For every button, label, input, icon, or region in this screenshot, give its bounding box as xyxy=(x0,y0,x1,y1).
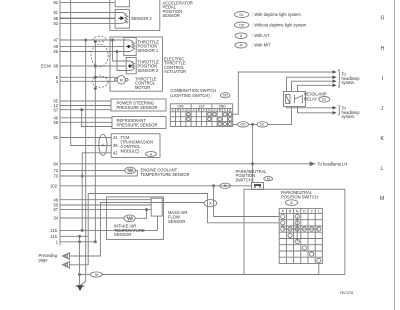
vertical 102 branch to PNP AT table row 1 xyxy=(214,186,280,217)
wire ECM 91 to APP sensor 2 xyxy=(60,12,115,14)
wire ECM 50 to MAF element xyxy=(60,204,151,206)
oval after TCM label xyxy=(146,152,157,157)
wire ECM 1 to shield drain xyxy=(60,241,95,243)
combination switch contact circles xyxy=(187,113,232,126)
throttle position sensor 1 inner box xyxy=(124,38,136,56)
svg-text:PRESSURE SENSOR: PRESSURE SENSOR xyxy=(117,105,158,110)
vertical V3 wire 47 down to ground xyxy=(81,40,86,286)
wire ECM 4 to throttle control motor xyxy=(60,80,116,82)
arrow 1 wire to PNP AT via connector A xyxy=(70,203,205,257)
svg-text:B: B xyxy=(198,108,200,112)
svg-text:M: M xyxy=(380,196,384,202)
ECM connector edge line xyxy=(59,0,61,246)
svg-text:OD: OD xyxy=(241,123,247,127)
svg-text:83: 83 xyxy=(53,21,58,26)
svg-text:SENSOR: SENSOR xyxy=(168,219,185,224)
svg-text:: Without daytime light system: : Without daytime light system xyxy=(252,23,307,28)
svg-text:47: 47 xyxy=(53,38,58,43)
svg-text:MODULE) :: MODULE) : xyxy=(121,148,142,153)
wire ECM 82 to APP sensor 1 xyxy=(60,2,115,4)
junction dot headlamp LH xyxy=(252,163,254,165)
relay bottom pin wires to headlamp system xyxy=(287,107,334,108)
svg-text:A: A xyxy=(193,108,195,112)
comb switch row1 wire to relay feed xyxy=(233,72,334,114)
wire ECM 46 to refrigerant pressure sensor xyxy=(60,117,112,119)
TP sensor interconnect vertical a xyxy=(113,40,127,61)
svg-text:A: A xyxy=(214,108,216,112)
TP sensor 1 potentiometer xyxy=(124,40,135,52)
sensor ground branch 57 to refrigerant sensor xyxy=(82,110,112,127)
wire ECM 115 MAF ground xyxy=(60,229,158,231)
preceding page arrow 2 xyxy=(62,194,279,269)
svg-text::: : xyxy=(281,200,282,205)
wire ECM 102 to PNP switch MT xyxy=(60,185,252,187)
bracket to headlamp system bottom xyxy=(338,106,340,115)
PNP MT switch box xyxy=(252,183,264,190)
wire ECM 98 to APP sensor 2 wiper xyxy=(60,17,115,19)
svg-text:A: A xyxy=(172,108,174,112)
svg-text:YEC27A: YEC27A xyxy=(340,291,354,295)
svg-text:To headlamp LH: To headlamp LH xyxy=(318,161,348,166)
svg-text:: With A/T: : With A/T xyxy=(252,33,270,38)
APP sensor 2 inner box xyxy=(115,9,129,28)
svg-text:OD: OD xyxy=(239,23,245,27)
svg-text:G: G xyxy=(381,16,385,22)
svg-text:34: 34 xyxy=(53,216,58,221)
svg-text:102: 102 xyxy=(50,183,58,188)
svg-text:ACTUATOR: ACTUATOR xyxy=(164,69,186,74)
power steering pressure sensor box xyxy=(111,99,166,111)
TCM connector oval A xyxy=(99,134,107,155)
wire ECM 83 to APP sensor 2 xyxy=(60,22,115,24)
shield dashed oval 1 xyxy=(93,37,106,42)
wire ECM 49 to TP sensor 1 wiper xyxy=(60,45,124,47)
PNP table column letters xyxy=(282,209,320,213)
wire ECM 69 to refrigerant pressure sensor xyxy=(60,121,112,123)
shield dashed oval 3 xyxy=(92,76,108,87)
svg-text:DL: DL xyxy=(322,98,326,102)
connector oval M on wire 102 xyxy=(220,183,231,188)
wire ECM 116 to ground xyxy=(60,235,88,237)
svg-text:C: C xyxy=(182,108,184,112)
svg-text:ECM: ECM xyxy=(41,64,51,69)
svg-text:69: 69 xyxy=(53,120,58,125)
svg-text:MOTOR: MOTOR xyxy=(135,85,150,90)
refrigerant pressure sensor box xyxy=(112,117,166,129)
svg-text:67: 67 xyxy=(53,207,58,212)
svg-text:: With M/T: : With M/T xyxy=(252,43,271,48)
svg-text:1: 1 xyxy=(56,239,59,244)
park/neutral position switch table xyxy=(279,209,322,264)
svg-text:C: C xyxy=(224,108,226,112)
TCM 42 wire to sensor ground xyxy=(82,153,111,231)
wire ECM 48 to MAF element xyxy=(60,199,151,201)
svg-text:J: J xyxy=(381,106,384,112)
junction dot TCM42/wire73 xyxy=(81,175,83,177)
svg-text:SENSOR 2: SENSOR 2 xyxy=(138,68,159,73)
svg-text:D: D xyxy=(229,108,231,112)
svg-text:82: 82 xyxy=(53,0,58,5)
arrowheads to headlamp system xyxy=(333,70,337,114)
svg-text:system: system xyxy=(342,80,356,85)
wire ECM 67 to MAF element xyxy=(60,209,151,211)
svg-text:M: M xyxy=(224,184,227,188)
ground drop wire xyxy=(79,236,81,284)
svg-text:PRESSURE SENSOR: PRESSURE SENSOR xyxy=(117,123,158,128)
oval after relay label xyxy=(319,97,330,103)
svg-text:A: A xyxy=(102,142,105,147)
wire ECM 34 to IAT sensor xyxy=(60,217,124,219)
wire ECM 73 ECT sensor return xyxy=(60,175,137,177)
svg-text:42: 42 xyxy=(113,150,118,155)
svg-text:D: D xyxy=(187,108,189,112)
svg-text:66: 66 xyxy=(53,49,58,54)
relay top pin wires to headlamp system xyxy=(287,77,334,91)
svg-text:R: R xyxy=(289,209,292,213)
mass air flow sensor box xyxy=(107,197,164,240)
TCM box xyxy=(111,134,160,158)
svg-text:DL: DL xyxy=(240,13,244,17)
headlamp relay box xyxy=(284,92,306,107)
svg-text:P: P xyxy=(282,209,285,213)
throttle control motor xyxy=(115,76,129,84)
svg-text:72: 72 xyxy=(53,168,58,173)
intake air temperature sensor thermistor xyxy=(124,215,135,222)
svg-text:68: 68 xyxy=(53,64,58,69)
PNP MT oval connector M xyxy=(80,264,319,278)
text layer xyxy=(39,0,361,295)
table headers xyxy=(177,105,226,109)
TP sensor 2 potentiometer xyxy=(126,61,134,71)
comb switch output wire with OD and DL connectors xyxy=(233,107,292,128)
legend oval M xyxy=(235,42,247,48)
svg-text:1: 1 xyxy=(318,209,320,213)
svg-text:115: 115 xyxy=(50,228,57,233)
svg-text:SENSOR 1: SENSOR 1 xyxy=(138,48,159,53)
svg-text:A: A xyxy=(290,201,293,205)
svg-text:OD: OD xyxy=(223,94,229,98)
oval after PNP AT label xyxy=(285,200,298,206)
grid reference letters xyxy=(380,16,385,203)
IAT to MAF ground link xyxy=(135,210,146,219)
svg-text:I: I xyxy=(382,76,383,82)
combination switch table xyxy=(170,104,232,127)
connector oval A on PNP AT wires xyxy=(204,200,217,207)
small inline ovals xyxy=(146,93,330,206)
wire ECM 68 to TP sensor 2 wiper xyxy=(60,65,126,67)
wire ECM 12 to PS pressure sensor xyxy=(60,105,111,107)
wire ECM 72 to ECT sensor xyxy=(60,169,125,171)
svg-text:page: page xyxy=(39,257,49,262)
svg-text:M: M xyxy=(95,273,98,277)
svg-text:POSITION SWITCH: POSITION SWITCH xyxy=(281,194,318,199)
junction dot 102 branch xyxy=(213,185,215,187)
svg-text:SWITCH :: SWITCH : xyxy=(236,178,254,183)
svg-text:73: 73 xyxy=(53,174,58,179)
wire ECM 65 to PS pressure sensor xyxy=(60,100,111,102)
svg-text:SENSOR 2: SENSOR 2 xyxy=(131,16,152,21)
MAF element ground vertical xyxy=(157,216,159,230)
wire ECM 92 to TCM 41 xyxy=(60,137,111,139)
PNP table internal links xyxy=(296,217,298,242)
legend oval OD xyxy=(235,22,249,28)
ECM pin numbers xyxy=(50,0,59,244)
svg-text:116: 116 xyxy=(50,234,57,239)
svg-text:2: 2 xyxy=(311,209,313,213)
electric throttle control actuator outer box xyxy=(110,37,163,91)
legend oval DL xyxy=(235,12,249,18)
PNP table contact circles xyxy=(281,214,321,262)
svg-text:H: H xyxy=(381,46,385,52)
svg-text:M: M xyxy=(120,78,123,82)
svg-text:84: 84 xyxy=(53,161,58,166)
park/neutral position switch assembly box xyxy=(244,189,345,274)
wire ECM 5 to throttle control motor xyxy=(60,76,117,78)
junction dots on shield drain xyxy=(94,40,96,243)
svg-text:system: system xyxy=(342,114,356,119)
svg-text:91: 91 xyxy=(53,10,58,15)
svg-text:SENSOR: SENSOR xyxy=(163,13,180,18)
svg-text:48: 48 xyxy=(53,197,58,202)
legend ovals xyxy=(235,12,249,49)
junction dot V3 on wire 47 xyxy=(85,39,87,41)
svg-text:M: M xyxy=(240,44,243,48)
svg-text:L: L xyxy=(381,166,384,172)
oval after lighting switch label xyxy=(221,93,231,98)
arrow to headlamp LH xyxy=(253,162,315,166)
svg-text:SENSOR: SENSOR xyxy=(114,232,131,237)
svg-text:41: 41 xyxy=(113,135,118,140)
bracket to headlamp system top xyxy=(338,70,340,87)
engine coolant temperature sensor thermistor xyxy=(125,167,137,176)
accelerator pedal position sensor outer box xyxy=(110,0,160,30)
junction dot on wire 115 xyxy=(81,229,83,231)
svg-text:TEMPERATURE SENSOR: TEMPERATURE SENSOR xyxy=(141,172,190,177)
svg-text:: With daytime light system: : With daytime light system xyxy=(252,12,301,17)
svg-text:57: 57 xyxy=(53,107,58,112)
svg-text:DL: DL xyxy=(260,123,264,127)
svg-text:C: C xyxy=(203,108,205,112)
wire ECM 84 to headlamp junction xyxy=(60,163,253,165)
vertical V1 from top to TCM 39 xyxy=(71,0,112,146)
shield drain vertical V2 to ECM pin 1 wire xyxy=(94,40,96,242)
svg-text:A: A xyxy=(240,34,243,38)
svg-text:39: 39 xyxy=(113,143,118,148)
vertical comb switch to PNP MT switch xyxy=(252,124,254,182)
svg-text:4: 4 xyxy=(56,79,59,84)
wire ECM 47 to TP sensor 1 xyxy=(60,39,124,41)
svg-text:N: N xyxy=(296,209,299,213)
frame right border xyxy=(394,0,396,310)
APP sensor 1 inner box (cut off at top) xyxy=(115,0,129,7)
svg-text:RELAY :: RELAY : xyxy=(304,96,319,101)
APP sensor 2 potentiometer xyxy=(115,13,128,24)
svg-text:K: K xyxy=(381,136,385,142)
preceding page arrow 1 xyxy=(62,203,204,260)
shield dashed oval 2 xyxy=(91,44,108,66)
svg-text:92: 92 xyxy=(53,135,58,140)
TP sensor interconnect vertical b xyxy=(117,52,126,71)
svg-text:A: A xyxy=(150,152,153,156)
svg-text:(LIGHTING SWITCH) :: (LIGHTING SWITCH) : xyxy=(170,93,212,98)
svg-text:B: B xyxy=(219,108,221,112)
ground junction dots xyxy=(78,235,80,237)
throttle position sensor 2 inner box xyxy=(126,58,136,74)
svg-text:A: A xyxy=(209,202,212,206)
MAF hot film element xyxy=(151,198,162,216)
svg-text:D: D xyxy=(208,108,210,112)
wire ECM 57 to PS pressure sensor xyxy=(60,109,111,111)
svg-text:D: D xyxy=(303,209,306,213)
junction dot comb switch to PNP MT xyxy=(252,123,254,125)
arrow 2 wire to PNP AT table row 2 xyxy=(70,194,280,265)
svg-text:B: B xyxy=(177,108,179,112)
oval after PNP MT label xyxy=(264,177,273,181)
wire ECM 66 to TP sensor 1 xyxy=(60,51,124,53)
ground symbol xyxy=(76,285,85,291)
legend oval A xyxy=(235,33,247,39)
wire PNP AT table return to ground xyxy=(80,274,91,276)
